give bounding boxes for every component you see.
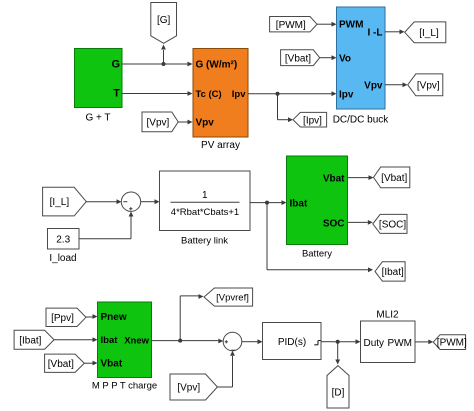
svg-text:Pnew: Pnew: [101, 312, 127, 323]
svg-text:PWM: PWM: [339, 20, 363, 31]
svg-text:[SOC]: [SOC]: [379, 220, 406, 231]
svg-text:Vpv: Vpv: [364, 81, 383, 92]
svg-text:Vpv: Vpv: [196, 118, 215, 129]
svg-text:2.3: 2.3: [56, 235, 70, 246]
svg-text:SOC: SOC: [323, 219, 345, 230]
svg-text:[I_L]: [I_L]: [419, 28, 439, 39]
svg-text:PWM: PWM: [388, 338, 412, 349]
svg-text:G: G: [111, 59, 120, 71]
svg-text:[I_L]: [I_L]: [50, 197, 70, 208]
svg-text:I -L: I -L: [368, 28, 383, 39]
svg-text:Xnew: Xnew: [124, 336, 149, 347]
svg-text:Tc (C): Tc (C): [196, 89, 222, 100]
svg-text:Battery: Battery: [302, 249, 332, 260]
svg-text:I_load: I_load: [49, 253, 76, 264]
svg-text:[Ibat]: [Ibat]: [382, 267, 404, 278]
svg-text:[Vbat]: [Vbat]: [381, 173, 407, 184]
svg-text:Ibat: Ibat: [101, 335, 119, 346]
svg-text:G + T: G + T: [85, 113, 110, 124]
svg-text:[Vbat]: [Vbat]: [285, 53, 311, 64]
svg-text:1: 1: [202, 190, 208, 201]
svg-text:[Ibat]: [Ibat]: [19, 335, 41, 346]
svg-text:Ibat: Ibat: [290, 199, 308, 210]
svg-text:[Vbat]: [Vbat]: [48, 359, 74, 370]
svg-text:T: T: [113, 88, 120, 100]
svg-text:4*Rbat*Cbats+1: 4*Rbat*Cbats+1: [171, 207, 239, 218]
svg-text:[G]: [G]: [157, 15, 171, 26]
svg-text:Ipv: Ipv: [339, 90, 354, 101]
svg-text:Duty: Duty: [364, 338, 385, 349]
svg-text:[Vpv]: [Vpv]: [147, 117, 170, 128]
svg-text:MLI2: MLI2: [376, 310, 399, 321]
svg-text:[PWM]: [PWM]: [276, 20, 306, 31]
svg-text:Ipv: Ipv: [232, 89, 246, 100]
svg-text:Vbat: Vbat: [101, 359, 123, 370]
svg-text:[Vpv]: [Vpv]: [177, 383, 200, 394]
svg-text:PV array: PV array: [201, 140, 240, 151]
svg-text:Vbat: Vbat: [323, 174, 345, 185]
svg-text:[Vpv]: [Vpv]: [417, 80, 440, 91]
svg-text:G (W/m²): G (W/m²): [196, 60, 238, 71]
svg-text:[PWM]: [PWM]: [437, 338, 467, 349]
svg-text:[Vpvref]: [Vpvref]: [216, 292, 249, 303]
svg-text:PID(s): PID(s): [278, 337, 306, 348]
svg-text:DC/DC buck: DC/DC buck: [333, 115, 390, 126]
svg-text:[Ipv]: [Ipv]: [303, 115, 322, 126]
svg-text:[D]: [D]: [332, 388, 345, 399]
svg-text:Battery link: Battery link: [181, 236, 228, 247]
svg-text:[Ppv]: [Ppv]: [51, 313, 74, 324]
svg-text:M P P T charge: M P P T charge: [92, 381, 157, 392]
svg-text:Vo: Vo: [339, 54, 351, 65]
